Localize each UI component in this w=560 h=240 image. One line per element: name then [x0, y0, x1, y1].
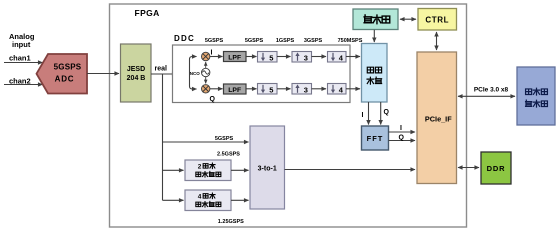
svg-text:1GSPS: 1GSPS: [276, 38, 295, 44]
wire to mixer Q split: [190, 74, 197, 89]
svg-text:NCO: NCO: [190, 71, 200, 76]
svg-text:I: I: [362, 112, 364, 119]
register block (ji-cun-qi): [353, 9, 398, 30]
LPF I block: [224, 52, 247, 62]
wire FFT Q to PCIe_IF: [389, 140, 416, 142]
svg-text:FFT: FFT: [367, 134, 384, 143]
wire dec5 to interp3 I: [277, 56, 291, 58]
wire DDC inlet split: [190, 57, 197, 75]
wire branch1 direct to 3-to-1: [163, 141, 249, 143]
svg-text:chan1: chan1: [9, 54, 31, 63]
wire chan1 into ADC: [4, 62, 43, 64]
FFT block: [362, 126, 389, 150]
svg-text:CTRL: CTRL: [425, 16, 449, 25]
wire dec4 I to window block: [346, 56, 360, 58]
wire chan2 into ADC: [4, 84, 43, 86]
DDC box: [173, 45, 351, 103]
wire dec4 Q to window block: [346, 88, 360, 90]
svg-text:ADC: ADC: [55, 75, 75, 84]
svg-text:real: real: [155, 66, 168, 73]
svg-text:3GSPS: 3GSPS: [304, 38, 323, 44]
svg-text:4: 4: [198, 194, 202, 201]
ADC 5GSPS pentagon U1: [37, 54, 88, 94]
svg-text:5GSPS: 5GSPS: [205, 38, 224, 44]
wire window Q to FFT: [380, 102, 382, 125]
wire ADC to JESD: [87, 73, 119, 75]
svg-text:I: I: [211, 50, 213, 57]
interpolate-by-3 Q block: [292, 84, 312, 95]
time-domain window block (shi-yu jia-chuang): [362, 44, 388, 103]
decimate-by-4 I block: [328, 52, 347, 63]
wire interp3 to dec4 Q: [312, 88, 327, 90]
svg-text:PCIe 3.0 x8: PCIe 3.0 x8: [474, 87, 509, 94]
wire interp3 to dec4 I: [312, 56, 327, 58]
wire CTRL-PCIe_IF bidirectional: [436, 32, 438, 50]
svg-text:2.5GSPS: 2.5GSPS: [217, 152, 240, 158]
decimate-by-5 Q block: [258, 84, 278, 95]
svg-text:PCIe_IF: PCIe_IF: [425, 114, 452, 123]
wire JESD real out to DDC: [151, 73, 177, 75]
wire mixer Q to LPF: [210, 88, 223, 90]
decimate-by-4 Q block: [328, 84, 347, 95]
svg-text:5: 5: [269, 85, 273, 94]
NCO oscillator: [202, 68, 210, 76]
mixer I (multiplier): [202, 52, 210, 60]
svg-text:5GSPS: 5GSPS: [54, 63, 82, 72]
wire avg2 to 3-to-1: [231, 169, 249, 171]
svg-text:DDR: DDR: [487, 164, 506, 173]
wire 3-to-1 to PCIe_IF: [285, 169, 416, 171]
wire LPF to dec5 I: [246, 56, 257, 58]
svg-text:LPF: LPF: [228, 55, 241, 62]
FPGA frame: [110, 4, 467, 227]
wire PCIe_IF-DDR bidirectional: [458, 167, 479, 169]
svg-text:3: 3: [304, 53, 308, 62]
2-point decimate average block: [185, 160, 231, 181]
svg-text:JESD: JESD: [127, 66, 145, 73]
svg-text:204 B: 204 B: [127, 75, 146, 82]
wire branch3 to avg4: [163, 199, 184, 201]
svg-text:2: 2: [198, 164, 202, 171]
wire register-CTRL bidirectional: [400, 18, 416, 20]
svg-text:1.25GSPS: 1.25GSPS: [218, 219, 244, 225]
LPF Q block: [224, 84, 247, 94]
DDR block: [481, 152, 511, 184]
svg-text:5: 5: [269, 53, 273, 62]
wire trunk down from real node: [162, 74, 164, 200]
mixer Q (multiplier): [202, 85, 210, 93]
svg-text:FPGA: FPGA: [135, 8, 160, 18]
svg-text:DDC: DDC: [174, 34, 195, 43]
wire FFT I to PCIe_IF: [389, 131, 416, 133]
wire LPF to dec5 Q: [246, 88, 257, 90]
wire mixer I to LPF: [210, 56, 223, 58]
svg-text:3-to-1: 3-to-1: [258, 166, 277, 173]
svg-text:Q: Q: [210, 96, 216, 103]
svg-text:I: I: [400, 125, 402, 132]
svg-text:Q: Q: [399, 135, 405, 142]
wire NCO to mixer I: [205, 62, 207, 68]
svg-text:5GSPS: 5GSPS: [215, 136, 234, 142]
wire PCIe 3.0 x8 bidirectional: [458, 95, 515, 97]
svg-text:5GSPS: 5GSPS: [245, 38, 264, 44]
svg-text:LPF: LPF: [228, 87, 241, 94]
wire register to window block: [373, 30, 375, 42]
PCIe_IF block: [417, 52, 457, 184]
interpolate-by-3 I block: [292, 52, 312, 63]
wire dec5 to interp3 Q: [277, 88, 291, 90]
server / industrial PC block (fu-wu-qi gong-kong-ji): [517, 67, 555, 125]
JESD204B block: [121, 44, 152, 102]
decimate-by-5 I block: [258, 52, 278, 63]
4-point decimate average block: [185, 190, 231, 211]
svg-text:Q: Q: [384, 109, 390, 116]
wire window I to FFT: [368, 102, 370, 125]
3-to-1 selector block: [250, 126, 285, 209]
wire NCO to mixer Q: [205, 77, 207, 84]
svg-text:3: 3: [304, 85, 308, 94]
svg-text:input: input: [12, 40, 31, 49]
wire branch2 to avg2: [163, 169, 184, 171]
svg-text:750MSPS: 750MSPS: [338, 38, 363, 44]
wire avg4 to 3-to-1: [231, 199, 249, 201]
CTRL block: [418, 9, 457, 31]
